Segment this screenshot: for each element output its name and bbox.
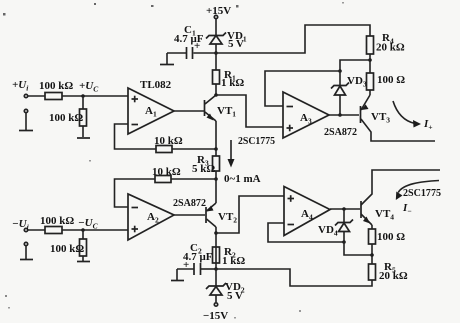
svg-text:2SC1775: 2SC1775 xyxy=(403,187,441,199)
svg-text:10 kΩ: 10 kΩ xyxy=(154,135,183,147)
svg-text:1 kΩ: 1 kΩ xyxy=(221,77,244,89)
svg-text:100 kΩ: 100 kΩ xyxy=(39,80,73,92)
svg-text:100 Ω: 100 Ω xyxy=(377,231,405,243)
svg-text:100 kΩ: 100 kΩ xyxy=(50,243,84,255)
svg-text:2SA872: 2SA872 xyxy=(173,197,206,209)
svg-text:10 kΩ: 10 kΩ xyxy=(152,166,181,178)
svg-text:100 Ω: 100 Ω xyxy=(377,74,405,86)
svg-text:+: + xyxy=(194,40,200,52)
svg-text:5 V: 5 V xyxy=(228,38,244,50)
svg-text:1 kΩ: 1 kΩ xyxy=(222,255,245,267)
svg-text:5 kΩ: 5 kΩ xyxy=(192,163,215,175)
svg-text:2SA872: 2SA872 xyxy=(324,126,357,138)
svg-text:+15V: +15V xyxy=(206,5,231,17)
svg-text:20 kΩ: 20 kΩ xyxy=(376,42,405,54)
svg-text:100 kΩ: 100 kΩ xyxy=(49,112,83,124)
svg-text:−15V: −15V xyxy=(203,310,228,322)
svg-text:2SC1775: 2SC1775 xyxy=(238,135,275,147)
svg-text:20 kΩ: 20 kΩ xyxy=(379,270,408,282)
svg-text:TL082: TL082 xyxy=(140,79,172,91)
svg-text:100 kΩ: 100 kΩ xyxy=(40,215,74,227)
svg-text:+: + xyxy=(183,259,189,271)
svg-text:5 V: 5 V xyxy=(227,290,243,302)
svg-text:0~1 mA: 0~1 mA xyxy=(224,173,261,185)
